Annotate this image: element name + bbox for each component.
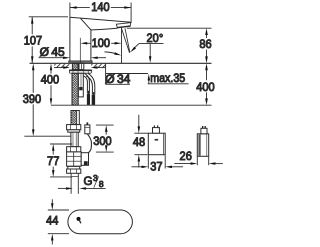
dim 100 line + arrows — [86, 42, 90, 44]
dim max.35 arrow — [148, 79, 150, 84]
sensor cable plug — [85, 125, 90, 134]
control box cap — [153, 128, 160, 134]
water jet line left — [122, 29, 130, 53]
dim 390 line + arrows — [32, 63, 35, 70]
dim Ø34 underline — [106, 83, 130, 85]
valve inlet nut — [67, 125, 81, 130]
dim 140 extension right — [130, 3, 132, 22]
dim 300 tick bottom — [96, 151, 114, 153]
threaded shank below flange — [72, 73, 78, 105]
dim 48 tick bottom — [135, 154, 148, 156]
faucet base skirt — [69, 61, 92, 63]
svg-text:400: 400 — [41, 73, 60, 87]
control box side cap — [201, 128, 207, 134]
svg-text:G: G — [84, 176, 93, 188]
dim 107 line + arrows — [31, 17, 33, 35]
faucet aerator (spout outlet) — [116, 23, 130, 28]
faucet centerline — [79, 38, 81, 63]
svg-text:8: 8 — [99, 179, 104, 189]
dim 300 tick top — [96, 124, 114, 126]
base plate hole marker — [77, 217, 81, 221]
dim 20° angle arc arrow — [105, 52, 117, 54]
countertop hatch right — [91, 64, 105, 68]
dim 400 right line + arrows — [205, 63, 208, 70]
control box front view — [148, 133, 165, 155]
dim 44 line + arrows — [51, 199, 53, 204]
mounting flange under deck — [69, 70, 91, 74]
dim 26 line + arrows — [174, 163, 191, 165]
dim 100 extension right — [121, 28, 123, 64]
supply hose 1 — [84, 73, 89, 93]
svg-text:86: 86 — [199, 37, 212, 51]
svg-text:300: 300 — [93, 134, 112, 148]
dim G3/8 arrows — [58, 187, 67, 189]
threaded shank through deck — [72, 63, 78, 69]
supply hose 2 — [88, 73, 95, 94]
dim 44 tick bottom — [48, 233, 69, 235]
dim 37 line + arrows — [132, 166, 143, 168]
dim 140 line + arrows — [70, 7, 90, 9]
svg-text:400: 400 — [196, 80, 215, 94]
svg-text:26: 26 — [180, 149, 193, 163]
dim 44 tick top — [48, 209, 69, 211]
valve neck — [71, 132, 78, 147]
countertop hatch left — [54, 64, 69, 68]
svg-text:max.35: max.35 — [150, 71, 185, 85]
control box emblem — [155, 139, 159, 141]
dim 20° vertical reference arrow — [149, 44, 151, 58]
dim 48 tick top — [134, 132, 148, 134]
reference line 400 below deck — [51, 104, 212, 106]
connection sleeve below flange — [78, 73, 83, 97]
wire: faucet body outline (side view) — [70, 17, 131, 23]
dim Ø45 leader + arrows — [39, 57, 65, 59]
valve top nut — [67, 147, 81, 152]
dim 86 line + arrows — [206, 34, 208, 39]
svg-text:44: 44 — [46, 214, 59, 228]
solenoid on valve — [81, 153, 88, 166]
dim 390 reference line — [24, 135, 71, 137]
dim 77 line + arrows — [52, 144, 55, 151]
dim 77 tick bottom — [50, 176, 72, 178]
max.35 thickness line — [106, 73, 148, 75]
svg-text:390: 390 — [23, 92, 42, 106]
svg-text:100: 100 — [92, 36, 111, 50]
sleeve through deck — [79, 63, 84, 69]
svg-text:77: 77 — [47, 154, 60, 168]
countertop underside left + Ø34 arrows — [54, 67, 64, 69]
dim 107 extension top — [29, 16, 68, 18]
dim 86 extension top (outlet level) — [127, 27, 212, 29]
svg-text:48: 48 — [133, 135, 146, 149]
svg-text:37: 37 — [150, 160, 163, 174]
countertop section break edge — [105, 63, 107, 84]
dim 20° leader arrow to jet — [134, 44, 139, 49]
valve bottom nut — [68, 166, 80, 169]
sensor cable — [87, 134, 91, 153]
dim max.35 underline — [148, 83, 189, 85]
svg-text:3: 3 — [93, 173, 98, 183]
svg-text:140: 140 — [91, 0, 110, 14]
dim 140 extension left — [69, 3, 71, 18]
svg-text:Ø 45: Ø 45 — [40, 45, 65, 59]
G3/8 outlet pipe — [70, 173, 72, 194]
dim 400 left line + arrows — [50, 63, 52, 70]
dim 20° underline — [139, 43, 164, 45]
water jet line right — [125, 28, 130, 52]
dim 26 extension left — [196, 157, 198, 166]
base plate oval — [68, 210, 132, 234]
supply hose 2 connector — [93, 92, 94, 95]
countertop deck line — [30, 62, 212, 64]
dim 48 line + arrows — [138, 115, 140, 127]
supply hose 1 connector — [88, 91, 89, 94]
control box side view — [197, 134, 208, 157]
dim 26 extension right — [208, 157, 210, 166]
dim 300 line + arrows — [105, 125, 108, 132]
valve inlet pipe (threaded) — [71, 111, 79, 125]
dim 37 extension left — [147, 155, 149, 168]
dim 77 tick top — [50, 143, 72, 145]
svg-text:20°: 20° — [147, 31, 164, 45]
dim 37 extension right — [164, 155, 166, 168]
valve body — [67, 152, 82, 166]
